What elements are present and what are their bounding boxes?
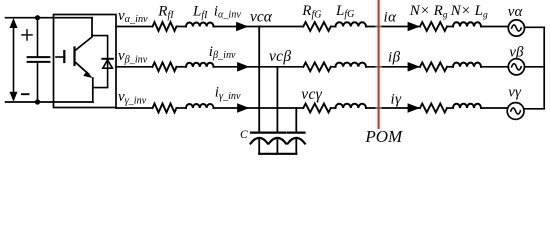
svg-text:iα: iα	[384, 10, 398, 26]
inductor LfI gamma	[186, 104, 214, 108]
capacitor bottom bus	[259, 153, 296, 155]
inductor LfG beta	[336, 63, 367, 67]
filter capacitor leg gamma	[295, 108, 297, 132]
Vdc arrowhead down	[10, 92, 18, 102]
wire	[331, 26, 336, 28]
wire	[177, 66, 187, 68]
svg-text:N× Lg: N× Lg	[450, 3, 488, 20]
wire	[177, 107, 187, 109]
resistor RfG alpha	[303, 22, 330, 31]
phase gamma wire segment 1	[116, 107, 153, 109]
wire with current arrow ig_inv	[214, 107, 297, 109]
inductor N x Lg gamma	[453, 104, 481, 108]
capacitor lower leg beta	[276, 138, 278, 153]
current arrowhead ia	[408, 22, 420, 32]
wire with current arrow ia_inv	[214, 26, 261, 28]
AC source vbeta	[508, 59, 524, 75]
Vdc arrowhead up	[10, 18, 18, 28]
current arrowhead ib_inv	[237, 62, 249, 72]
filter capacitor leg beta	[276, 67, 278, 132]
wire from source to right rail	[525, 26, 545, 28]
svg-text:iγ: iγ	[391, 91, 403, 107]
Vdc measurement arrow shaft	[13, 21, 15, 99]
right grid rail	[543, 27, 545, 109]
inductor N x Lg alpha	[453, 22, 481, 26]
wire from source to right rail	[525, 66, 545, 68]
capacitor lower leg alpha	[258, 138, 260, 153]
capacitor lower leg gamma	[295, 138, 297, 153]
svg-text:iβ_inv: iβ_inv	[209, 44, 236, 61]
transistor Q1 channel bar	[73, 48, 75, 66]
transistor Q1 emitter arrowhead	[83, 71, 92, 78]
wire bottom DC rail	[6, 101, 93, 103]
wire with current arrow ig	[366, 107, 420, 109]
transistor Q1 emitter	[75, 62, 89, 75]
resistor RfG beta	[303, 62, 330, 71]
svg-text:RfI: RfI	[157, 4, 174, 21]
AC source vgamma	[507, 103, 524, 120]
svg-text:vβ_inv: vβ_inv	[118, 48, 148, 65]
inverter box U1	[54, 15, 117, 108]
capacitor Cdc bottom lead	[37, 63, 39, 102]
node vcg wire to RfG	[296, 107, 303, 109]
phase beta wire segment 1	[116, 66, 153, 68]
svg-text:iβ: iβ	[388, 49, 401, 65]
current arrowhead ib	[408, 62, 420, 72]
wire with current arrow ib_inv	[214, 66, 278, 68]
svg-text:iγ_inv: iγ_inv	[215, 85, 241, 102]
inductor LfI beta	[186, 63, 214, 67]
node vca wire to RfG	[260, 26, 303, 28]
AC source valpha	[508, 20, 524, 36]
junction dot bottom	[35, 99, 40, 104]
resistor RfI alpha	[153, 22, 177, 31]
resistor RfI gamma	[153, 104, 177, 113]
current arrowhead ig_inv	[237, 103, 249, 113]
wire	[447, 107, 453, 109]
wire	[331, 107, 336, 109]
wire	[447, 26, 453, 28]
svg-text:C: C	[240, 129, 248, 141]
svg-text:vγ_inv: vγ_inv	[118, 89, 147, 106]
plus polarity mark	[22, 30, 32, 40]
svg-text:RfG: RfG	[301, 3, 321, 20]
diode D1 bottom link	[93, 60, 108, 88]
wire top DC rail	[6, 17, 92, 19]
svg-text:iα_inv: iα_inv	[214, 3, 242, 20]
resistor N x Rg alpha	[420, 22, 447, 31]
svg-text:vcβ: vcβ	[269, 48, 291, 65]
wire with current arrow ib	[366, 66, 420, 68]
capacitor C alpha plates	[251, 133, 268, 144]
phase alpha wire segment 1	[116, 26, 153, 28]
inductor N x Lg beta	[453, 63, 481, 67]
svg-text:LfG: LfG	[335, 3, 354, 20]
resistor RfG gamma	[303, 104, 330, 113]
POM halo	[375, 1, 382, 128]
inductor LfG alpha	[336, 22, 367, 26]
svg-text:vα: vα	[508, 4, 524, 20]
svg-text:vcγ: vcγ	[301, 86, 322, 103]
POM boundary red line	[378, 1, 380, 128]
svg-text:N× Rg: N× Rg	[409, 3, 448, 20]
transistor Q1 collector	[75, 18, 92, 51]
transistor Q1 emitter lead	[92, 78, 94, 102]
diode D1 cathode bar	[102, 58, 112, 60]
svg-text:vcα: vcα	[250, 9, 273, 26]
wire from source to right rail	[524, 108, 545, 110]
transistor Q1 gate lead	[56, 56, 64, 58]
resistor N x Rg gamma	[420, 104, 447, 113]
svg-text:POM: POM	[364, 127, 403, 146]
node vcb wire to RfG	[277, 66, 303, 68]
inductor LfG gamma	[336, 104, 367, 108]
resistor RfI beta	[153, 62, 177, 71]
resistor N x Rg beta	[420, 62, 447, 71]
capacitor C beta plates	[269, 133, 286, 144]
wire	[177, 26, 187, 28]
wire to source vbeta	[481, 66, 508, 68]
wire to source valpha	[481, 26, 508, 28]
wire	[331, 66, 336, 68]
capacitor C gamma plates	[288, 133, 305, 144]
svg-text:vγ: vγ	[508, 84, 522, 100]
svg-text:LfI: LfI	[192, 4, 208, 21]
diode D1 triangle	[103, 60, 113, 68]
capacitor Cdc top lead	[37, 18, 39, 57]
wire	[447, 66, 453, 68]
wire to source vgamma	[481, 107, 508, 109]
minus polarity mark	[22, 93, 29, 95]
diode D1 top link	[92, 36, 108, 58]
wire with current arrow ia	[366, 26, 420, 28]
current arrowhead ia_inv	[236, 22, 248, 32]
junction dot top	[35, 15, 40, 20]
transistor Q1 gate bar	[63, 51, 65, 62]
svg-text:vβ: vβ	[509, 45, 524, 61]
capacitor Cdc plates	[28, 57, 50, 62]
inductor LfI alpha	[186, 22, 214, 26]
svg-text:vα_inv: vα_inv	[118, 8, 148, 25]
current arrowhead ig	[408, 103, 420, 113]
filter capacitor leg alpha	[258, 27, 260, 132]
